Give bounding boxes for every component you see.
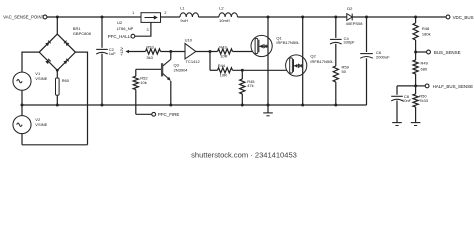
bridge diode top-right [64,41,69,46]
svg-text:2N3904: 2N3904 [174,67,189,72]
wire V1 to bottom rail [21,90,23,105]
svg-text:VSINE: VSINE [35,76,47,81]
svg-text:R43: R43 [219,44,227,49]
power arrow +12V [125,50,129,54]
svg-text:BUS_SENSE: BUS_SENSE [434,50,461,55]
svg-text:IRFB17N50L: IRFB17N50L [276,40,300,45]
node R59 bottom [334,104,337,107]
op-amp U10 TC1412 [185,43,196,59]
svg-text:U10: U10 [185,38,193,43]
wire U2 pin3 to PFC_HALL [135,22,151,36]
wire L1 to L2 [199,16,219,18]
diode D2 40EPS08 [347,14,352,21]
wire gate split down [209,52,211,71]
resistor R60 [56,70,58,78]
node R48 top on top rail [414,16,417,19]
wire R43 to Q1 gate [233,51,253,53]
svg-text:10nF: 10nF [402,98,412,103]
node Q2 source on bottom rail [301,104,304,107]
resistor R52 [135,69,137,76]
node Q3 emitter on bottom rail [169,104,172,107]
terminal PFC_FIRE [152,112,156,116]
svg-text:10R: 10R [220,54,227,59]
node R45 bottom [241,104,244,107]
node C4 top on top rail [334,16,337,19]
transistor Q1 IRFB17N50L [251,35,272,56]
terminal BUS_SENSE [427,50,431,54]
svg-text:R44: R44 [218,63,226,68]
svg-text:VSINE: VSINE [35,122,47,127]
node V1-V2 junction on bottom rail [21,104,24,107]
wire V2 bottom return [21,134,23,145]
capacitor C6 [366,17,368,52]
svg-text:D2: D2 [347,6,353,11]
resistor R44 [210,69,218,71]
svg-text:3k3: 3k3 [146,55,153,60]
wire Q2 drain-source vertical [302,17,304,105]
svg-text:TC1412: TC1412 [186,59,201,64]
svg-text:R53: R53 [146,45,154,50]
wire bottom return to bridge right [22,144,88,146]
node C6 top on top rail [365,16,368,19]
svg-text:1uF: 1uF [109,51,116,56]
wire U10 output [196,51,218,53]
resistor R53 [146,49,161,54]
wire Q1 drain-source vertical [267,17,269,105]
terminal HALF_BUS_SENSE [425,84,429,88]
node bridge top on top rail [56,16,59,19]
svg-text:shutterstock.com · 2341410453: shutterstock.com · 2341410453 [191,151,297,160]
inductor L2 [219,13,238,17]
ground below R50 [415,107,417,123]
terminal VDC_BUS [446,15,450,19]
wire bridge top vertex to top rail [56,17,58,34]
wire D2 to VDC_BUS terminal [352,16,446,18]
svg-text:VDC_BUS: VDC_BUS [453,15,474,20]
node C2 top on top rail [101,16,104,19]
svg-text:10R: 10R [220,72,227,77]
node C2 bottom [101,104,104,107]
wire VAC terminal to U2 pin1 [47,16,141,18]
node Q1 source on bottom rail [267,104,270,107]
resistor R48 [415,17,417,23]
svg-text:L1: L1 [180,5,185,10]
source V1 VSINE [13,72,31,90]
svg-text:40EPS08: 40EPS08 [346,21,364,26]
svg-text:IRFB17N50L: IRFB17N50L [310,59,334,64]
bridge diode bottom-right [63,59,68,64]
wire R44 to Q2 gate [233,69,287,71]
svg-text:2: 2 [164,11,166,15]
resistor R43 [218,49,233,54]
node bridge bottom vertex [56,69,59,72]
node R45 top [241,69,244,72]
svg-text:GBPC808: GBPC808 [73,31,92,36]
wire U2 pin2 to L1 [161,16,181,18]
wire bottom rail [22,104,367,106]
resistor R50 [415,86,417,94]
bridge diode top-left [45,41,50,46]
svg-text:3: 3 [147,28,149,32]
svg-text:R49: R49 [421,61,429,66]
transistor Q3 2N3904 [170,52,172,60]
wire to BUS_SENSE terminal [416,51,427,53]
wire bridge left vertex to V1 [22,52,39,72]
svg-text:9uH: 9uH [180,18,187,23]
op-amp U2 sensor block [141,13,161,23]
node BUS_SENSE junction [414,51,417,54]
svg-text:330pF: 330pF [343,40,355,45]
bridge rectifier BR1 outline [39,34,75,70]
ground below C8 [396,101,398,123]
svg-text:10k: 10k [140,80,146,85]
svg-text:PFC_HALL: PFC_HALL [108,34,131,39]
svg-text:+12V: +12V [120,47,124,56]
svg-text:R48: R48 [422,26,430,31]
resistor R59 [333,66,338,82]
wire R52 to PFC_FIRE [136,113,152,115]
wire to HALF_BUS_SENSE terminal [416,85,426,87]
bridge diode bottom-left [45,59,50,64]
wire +12V arrow to R53 [129,51,146,53]
source V2 VSINE [13,116,31,134]
ground at bottom rail [267,105,269,113]
svg-text:HALF_BUS_SENSE: HALF_BUS_SENSE [433,84,473,89]
wire R53 to U10 input [161,51,186,53]
svg-text:50: 50 [342,69,347,74]
node Q1 drain on top rail [267,16,270,19]
resistor R49 [415,52,417,60]
svg-text:680: 680 [421,67,428,72]
wire bridge right vertex down [75,52,87,145]
node gate drive split [209,50,212,53]
svg-text:LT66_NP: LT66_NP [117,26,134,31]
resistor R45 [241,70,243,79]
svg-text:L2: L2 [219,5,224,10]
wire L2 to D2 [238,16,347,18]
wire bottom rail V2 top [21,105,23,116]
inductor L1 [180,13,199,17]
svg-text:PFC_FIRE: PFC_FIRE [158,112,179,117]
svg-text:47k: 47k [247,83,253,88]
svg-text:R60: R60 [62,78,70,83]
wire HALF_BUS node to C8 [397,85,416,87]
svg-text:10mH: 10mH [219,18,230,23]
svg-text:2000uF: 2000uF [376,55,390,60]
svg-text:180k: 180k [422,32,431,37]
node Q2 drain on top rail [301,16,304,19]
capacitor C4 [335,17,337,38]
wire Q3 base [136,68,161,70]
svg-text:7k33: 7k33 [419,98,428,103]
svg-text:VAC_SENSE_POINT: VAC_SENSE_POINT [3,15,44,20]
svg-text:1: 1 [132,11,134,15]
capacitor C8 [396,86,398,95]
transistor Q2 IRFB17N50L [286,55,307,76]
node R53 U10 Q3 junction [169,50,172,53]
node HALF_BUS_SENSE junction [414,84,417,87]
svg-text:U2: U2 [117,20,123,25]
terminal PFC_HALL [131,34,135,38]
node R60 bottom [56,104,59,107]
capacitor C2 [101,17,103,48]
